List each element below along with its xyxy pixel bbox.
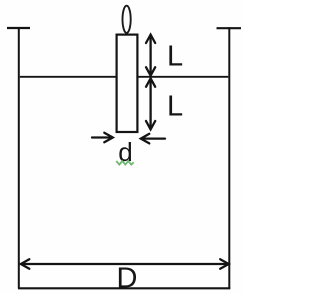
spellcheck squiggle under d bbox=[116, 161, 133, 165]
dimension arrow D (tank width) bbox=[21, 259, 229, 269]
tank right wall bbox=[228, 27, 230, 288]
svg-text:D: D bbox=[117, 262, 138, 294]
svg-text:L: L bbox=[167, 91, 183, 123]
suspension loop (ellipse) bbox=[123, 6, 131, 33]
tank right wall top tick bbox=[217, 27, 242, 29]
dimension arrow d (left) bbox=[92, 133, 113, 143]
dimension arrow d (right) bbox=[141, 134, 165, 144]
rod (rectangle) bbox=[117, 35, 138, 132]
dimension arrow L (above surface) bbox=[146, 35, 155, 76]
dimension arrow L (below surface) bbox=[146, 78, 155, 129]
tank left wall top tick bbox=[7, 27, 30, 29]
svg-text:L: L bbox=[167, 41, 183, 73]
tank bottom bbox=[18, 287, 230, 289]
liquid surface line bbox=[20, 76, 229, 78]
tank left wall bbox=[18, 27, 20, 288]
